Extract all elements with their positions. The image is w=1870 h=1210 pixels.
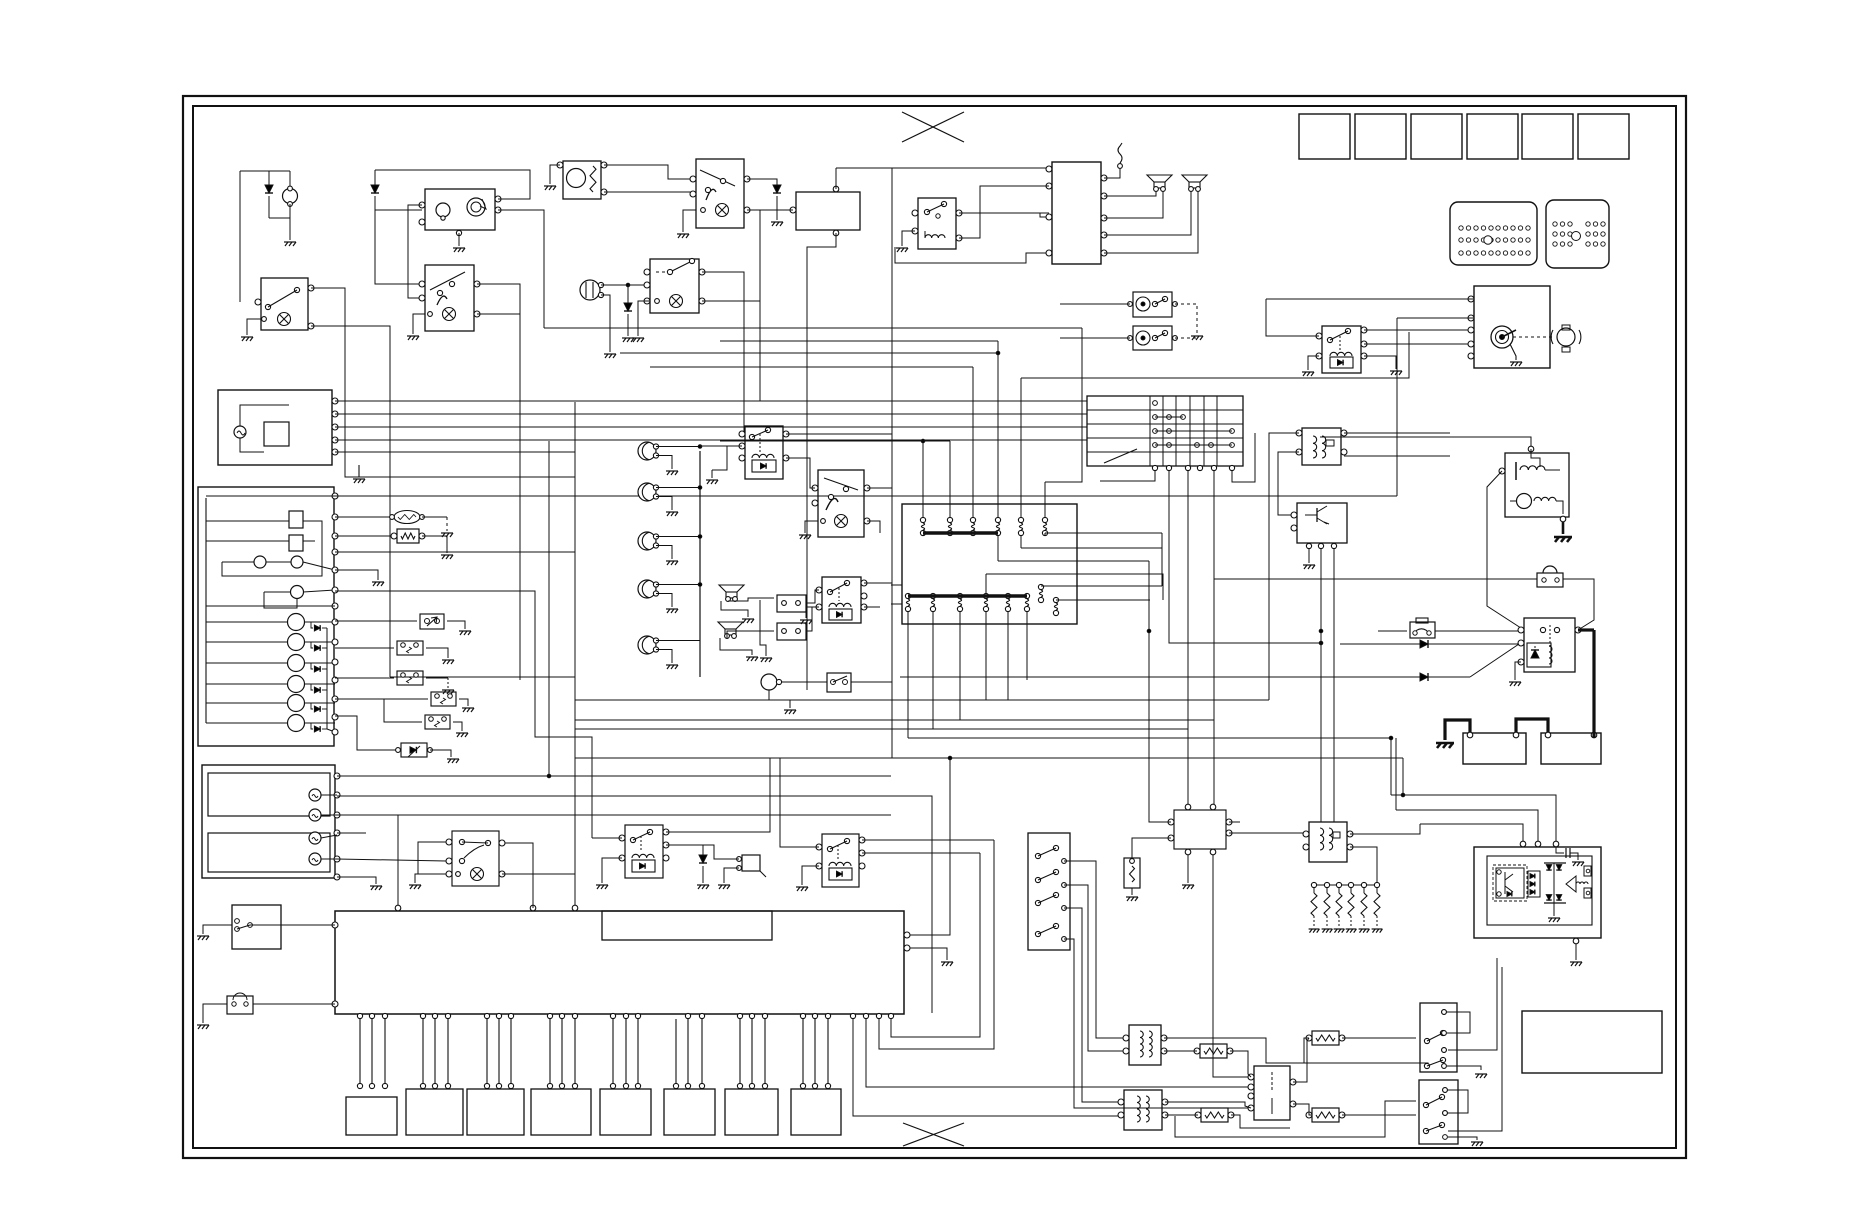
ground cluster: [358, 465, 360, 477]
lamp fuse box 1: [1133, 292, 1172, 317]
regulator wires: [998, 560, 1149, 562]
fuel gauge circle: [291, 586, 304, 599]
wire sender feed top: [337, 775, 891, 777]
accessory box 8: [791, 1089, 841, 1135]
connector block B: [1546, 200, 1609, 268]
accessory box 5: [600, 1089, 651, 1135]
wire row 570: [335, 570, 378, 580]
wire lighting lamp out: [502, 873, 575, 875]
wire 578 long: [1214, 578, 1537, 580]
starter motor assembly: [1505, 453, 1569, 517]
wire 758 to alternator feed: [1402, 758, 1404, 795]
wire sender row 796: [337, 796, 932, 1013]
indicator square 1: [289, 511, 303, 528]
outer border frame: [183, 96, 1686, 1158]
fuel sender unit: [227, 996, 253, 1014]
distributor points box: [1254, 1066, 1290, 1120]
wires ECU to boxes: [359, 1019, 361, 1083]
wire ignition feed top: [1266, 298, 1474, 300]
main wiring junction box: [335, 911, 904, 1014]
sender units box: [202, 765, 335, 878]
battery relay solenoid: [1524, 618, 1575, 672]
glow switch 2 wires: [1448, 1090, 1468, 1113]
wire sender row 815: [337, 815, 398, 911]
wire comb B lamp out: [702, 300, 760, 302]
wire motor left down to wiper switch: [375, 210, 422, 284]
wire y700: [985, 624, 987, 700]
flasher unit: [796, 192, 860, 230]
fuse row 1: [920, 517, 925, 522]
accessory box 2: [406, 1089, 463, 1135]
headlamp bus junctions: [698, 445, 702, 449]
wire sender row 833 stub: [337, 832, 366, 834]
ground regulator: [1182, 885, 1194, 889]
fuse outputs right: [1044, 533, 1046, 536]
wire lamp boxes feed: [1060, 303, 1130, 305]
sender wires out: [321, 794, 337, 796]
headlamp unit left: [580, 280, 600, 300]
wire cluster 496 long feed: [335, 495, 1397, 497]
lighting switch lower: [452, 831, 499, 886]
coil wiring: [1164, 1038, 1309, 1063]
relay ground: [1515, 662, 1521, 680]
battery 2: [1541, 733, 1601, 764]
combination switch B (turn signal): [650, 259, 699, 313]
ignition coil 2: [1124, 1090, 1162, 1130]
antenna: [1104, 169, 1120, 178]
wire SW1 out top: [311, 288, 575, 477]
fuse extra right 2: [1053, 597, 1058, 602]
glow plug switch 1: [1420, 1003, 1457, 1072]
wire 1082 down 482: [1045, 328, 1082, 482]
ground transistor unit: [1303, 565, 1315, 569]
dimmer relay: [745, 426, 783, 479]
ground horn area: [760, 600, 766, 656]
combination switch A (wiper): [696, 159, 744, 228]
revision X mark bottom: [903, 1123, 964, 1146]
sender 4: [309, 853, 321, 865]
long vertical 575: [574, 402, 576, 911]
revision X mark top: [902, 112, 964, 142]
headlamp bulb 4: [638, 580, 656, 598]
headlamp bus: [699, 451, 701, 677]
horn relay 2: [822, 577, 861, 623]
wire row 678 switch box: [335, 677, 394, 679]
diode to ground mid: [702, 845, 704, 855]
horn connector 2: [777, 623, 806, 640]
inner border frame: [193, 106, 1676, 1148]
igniter wires: [1350, 847, 1377, 885]
ground horn relay: [896, 248, 908, 252]
bold ground starter: [1554, 537, 1572, 542]
cluster output wires to fuse table: [335, 400, 1087, 402]
ground comb switch B: [632, 338, 644, 342]
wire wiper top loop: [375, 170, 530, 199]
wire relay to radio: [959, 212, 1049, 214]
title blocks row top right: [1299, 114, 1350, 159]
fuse stub verticals: [1007, 624, 1009, 700]
wires relay A out: [666, 758, 770, 832]
wires ignition relay: [1266, 299, 1319, 336]
ignition igniter box: [1309, 822, 1347, 862]
wire radio feed lower: [895, 247, 1049, 263]
right bottom terminals: [850, 1013, 855, 1018]
wire lighting switch feed: [499, 843, 533, 908]
warning lamp cluster box: [198, 487, 334, 746]
accessory box 1: [346, 1097, 397, 1135]
relay B mid-low: [822, 834, 859, 887]
connector block A: [1450, 202, 1537, 265]
horn switch: [827, 673, 851, 692]
wire y758 long: [575, 757, 1403, 759]
accessory box 7: [725, 1089, 778, 1135]
wire row 621 flasher box: [335, 620, 417, 622]
ground clock: [284, 242, 296, 246]
horn relay: [918, 198, 956, 249]
wire y738 battery feed: [907, 624, 909, 738]
diode feed 1: [1340, 643, 1518, 645]
wire flasher left: [760, 209, 793, 211]
warning lamps with diodes: [288, 614, 305, 631]
vertical 950 to ECU: [908, 758, 950, 935]
fuse bus 1 thick: [923, 531, 998, 535]
wire comb B out top: [702, 272, 744, 434]
cluster terminals right: [332, 493, 338, 499]
diode wiper: [374, 170, 376, 185]
junction box bottom terminal groups: [357, 1013, 362, 1018]
ignition switch assembly: [1474, 286, 1550, 368]
lamp fuse box 2: [1133, 326, 1172, 350]
diode headlamp branch: [627, 285, 629, 303]
wires lighting switch: [867, 487, 892, 489]
glow switch 1 wires: [1447, 1012, 1470, 1033]
wire horiz 341: [720, 340, 998, 342]
nested wire P4: [891, 853, 980, 1037]
switch SW1 with lamp: [261, 278, 308, 330]
starter diagonal wires: [1487, 471, 1524, 630]
bottom right box: [1522, 1011, 1662, 1073]
door switch wires: [1064, 861, 1126, 1038]
nested wire P2: [866, 1019, 1251, 1087]
spark wires right verticals: [1448, 958, 1497, 1050]
wire starter control: [1320, 437, 1531, 446]
wire y720 nested: [959, 624, 961, 720]
wire ECU right ground: [908, 948, 947, 960]
ground comb switch A: [677, 234, 689, 238]
dashed link to ground: [1175, 304, 1197, 334]
lighting switch mid: [818, 470, 864, 537]
fuse bus 2 thick: [908, 594, 1027, 598]
speaker right: [1182, 175, 1207, 182]
table bottom terminals: [1152, 465, 1157, 470]
speaker wiring: [1104, 191, 1156, 196]
accessory box 6: [664, 1089, 715, 1135]
horn connector 1: [777, 595, 806, 612]
glow plug switch 2: [1419, 1080, 1458, 1144]
long vertical 549: [548, 441, 550, 777]
wire acc relay: [1269, 433, 1299, 700]
wire row 716 diode box: [335, 716, 398, 750]
nested wire P3: [879, 840, 994, 1049]
accessory relay: [1302, 428, 1341, 465]
fuse box: [902, 504, 1077, 624]
fusible link main: [1378, 630, 1407, 632]
wires relay B out: [862, 839, 994, 841]
capacitor symbol: [1556, 847, 1564, 853]
wire ignition second: [1397, 317, 1474, 319]
headlamp bulb 5: [638, 636, 656, 654]
horn 2: [718, 622, 743, 629]
wire wiper sw out: [477, 284, 520, 680]
resistor R1: [1200, 1044, 1227, 1058]
ballast resistor bank: [1314, 884, 1377, 886]
wire row 552: [335, 551, 575, 553]
wire SW1 out bottom: [311, 326, 390, 677]
wiper motor unit: [425, 189, 495, 230]
sender 2: [309, 809, 321, 821]
ignition relay: [1322, 326, 1361, 373]
buzzer: [742, 855, 760, 871]
resistor row 536: [335, 535, 394, 537]
voltage regulator unit: [1174, 810, 1226, 849]
nested wire P1: [853, 1019, 1121, 1116]
alternator regulator unit: [1474, 847, 1601, 938]
table contact circles: [1153, 401, 1158, 406]
alternator internals dashed box: [1496, 868, 1524, 898]
ground wiper motor: [453, 248, 465, 252]
alternator bottom terminal: [1573, 938, 1579, 944]
indicator square 2: [289, 535, 303, 551]
accessory box 3: [467, 1089, 524, 1135]
wire horiz 367: [650, 366, 973, 368]
fuse extra right 1: [1038, 584, 1043, 589]
alternator ground internal: [1553, 903, 1555, 916]
lighting switch left link: [418, 842, 446, 874]
wire flasher down: [807, 233, 836, 690]
resistor R2: [1312, 1031, 1339, 1045]
fuse row2 feeds left: [891, 584, 902, 586]
fuse feed verticals: [922, 441, 924, 517]
wire washer to wiper switch: [604, 165, 696, 179]
vertical 1162 fuse drop: [1161, 533, 1163, 586]
wire sender row 877 ground: [337, 877, 376, 884]
resistor R3: [1201, 1108, 1228, 1122]
alternator connector right: [1584, 866, 1591, 876]
gauge pair circles: [254, 556, 266, 568]
small switch lower left: [232, 905, 281, 949]
wire horiz 441: [720, 440, 950, 442]
speaker left: [1147, 175, 1172, 182]
headlamp bulb 2: [638, 483, 656, 501]
headlamp bulb 1: [638, 442, 656, 460]
wire flasher feed: [836, 167, 1049, 169]
oil pressure switch: [1132, 838, 1171, 858]
junction sub box: [602, 911, 772, 940]
current sensor clip: [1537, 573, 1563, 587]
ground washer pump: [544, 186, 556, 190]
washer pump: [563, 161, 601, 199]
resistor R4: [1312, 1108, 1339, 1122]
starter motor symbol: [1557, 328, 1575, 346]
junction headlamp wire: [626, 283, 630, 287]
wire horiz 328: [544, 327, 1082, 329]
radio unit: [1052, 162, 1101, 264]
wire comb A lamp out: [747, 210, 760, 401]
wire sender row 859 to switch: [337, 859, 446, 861]
headlamp bulb 3: [638, 532, 656, 550]
ground headlamp: [604, 354, 616, 358]
wire wiper motor out right: [498, 210, 544, 328]
relay A mid-low: [625, 825, 663, 878]
sender 1: [309, 789, 321, 801]
wire radio third: [1040, 213, 1049, 217]
fuse row 2: [905, 593, 910, 598]
horn button: [761, 674, 777, 690]
wire coil2 to spark 2: [1175, 1101, 1416, 1137]
wire comb A to diode: [747, 179, 777, 185]
wire row 648 switch box: [335, 647, 394, 649]
wire into transistor: [1278, 514, 1294, 516]
junction box top terminals: [395, 905, 401, 911]
alternator feeds: [1390, 738, 1392, 795]
door switch bank: [1028, 833, 1070, 950]
wire diode to motor: [375, 209, 422, 211]
ignition switch table: [1087, 396, 1243, 466]
horn 1: [719, 585, 744, 592]
wire 677 horizontal: [390, 676, 575, 678]
ground wiper switch: [407, 336, 419, 340]
ignition coil 1: [1129, 1025, 1161, 1065]
wire fuse out 378: [1021, 332, 1409, 378]
ignition control transistor unit: [1297, 503, 1347, 543]
alternator stator coil: [1566, 876, 1576, 892]
diode feed 2: [900, 676, 1470, 678]
alternator small bridge: [1530, 874, 1535, 879]
transistor unit wires down: [1320, 549, 1322, 822]
wire row 591: [335, 591, 592, 838]
alternator rectifier bridge: [1546, 865, 1551, 870]
fusible link row 517: [335, 516, 394, 518]
wire row 699 twin switch boxes: [335, 698, 428, 700]
thick battery links: [1445, 720, 1470, 740]
long vertical 891: [891, 168, 893, 758]
thick battery wire: [1578, 628, 1594, 631]
ground SW1: [241, 337, 253, 341]
accessory box 4: [531, 1089, 591, 1135]
table terminal wires down: [1100, 471, 1155, 481]
diode to ground: [773, 185, 781, 193]
wiper switch with lamp: [425, 265, 474, 331]
wire horiz 353: [620, 352, 998, 354]
bold ground battery: [1436, 743, 1454, 748]
wires dimmer relay out: [786, 433, 892, 435]
clock motor M1: [240, 170, 290, 172]
sender 3: [309, 832, 321, 844]
wire bulb1 to dimmer relay: [700, 445, 742, 447]
speedometer cluster box: [218, 390, 332, 465]
wire sensor right: [1563, 579, 1594, 630]
battery 1: [1463, 733, 1526, 764]
wire y729: [932, 624, 934, 729]
